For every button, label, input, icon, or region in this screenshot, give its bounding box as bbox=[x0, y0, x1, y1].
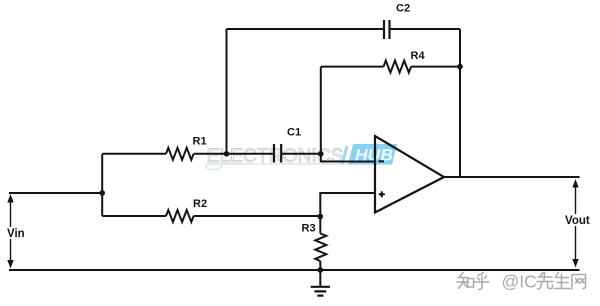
svg-text:R3: R3 bbox=[302, 223, 316, 235]
watermark swoosh underline bbox=[206, 164, 348, 170]
svg-text:Vout: Vout bbox=[565, 215, 590, 227]
node R2 R3 junction bbox=[318, 214, 324, 220]
ground bbox=[311, 287, 330, 296]
glyph xian bbox=[537, 273, 553, 290]
svg-text:R1: R1 bbox=[193, 136, 207, 148]
wire C2 to right vertical bbox=[390, 28, 461, 30]
wire plus branch vertical and plus lead bbox=[320, 193, 374, 234]
node rail junction bbox=[318, 267, 324, 273]
op-amp plus pin mark bbox=[379, 191, 385, 197]
wire ground stem bbox=[319, 270, 321, 287]
wire C2 branch vertical bbox=[226, 29, 228, 154]
capacitor C1 bbox=[274, 144, 281, 163]
wire R4 branch vertical and minus lead bbox=[321, 67, 375, 162]
wire left vertical split bbox=[101, 154, 103, 216]
watermark zhihu text bbox=[457, 273, 489, 290]
watermark HUB box bbox=[348, 144, 397, 165]
wire R1 line left bbox=[102, 153, 166, 155]
svg-text:R2: R2 bbox=[193, 198, 207, 210]
wire input Vin horizontal bbox=[9, 192, 102, 194]
capacitor C2 bbox=[384, 20, 390, 39]
op-amp U1 bbox=[375, 136, 444, 213]
svg-text:C1: C1 bbox=[287, 127, 301, 139]
resistor R4 bbox=[384, 61, 412, 73]
svg-text:@IC: @IC bbox=[502, 272, 537, 292]
wire R4 left bbox=[321, 66, 384, 68]
svg-text:R4: R4 bbox=[411, 50, 426, 62]
wire R2 right bbox=[194, 215, 321, 217]
glyph sheng bbox=[554, 273, 570, 289]
resistor R3 bbox=[315, 234, 326, 262]
wire R3 to rail bbox=[319, 261, 321, 270]
Vout arrow bbox=[572, 179, 578, 268]
Vin arrow bbox=[7, 194, 13, 269]
wire top line to C2 bbox=[227, 28, 385, 30]
node input junction bbox=[99, 190, 105, 196]
watermark blue slash bbox=[341, 146, 349, 164]
svg-text:C2: C2 bbox=[396, 3, 410, 15]
glyph wang bbox=[572, 275, 586, 290]
svg-text:Vin: Vin bbox=[7, 228, 25, 240]
wire ground rail bbox=[9, 269, 580, 271]
glyph hu bbox=[474, 273, 489, 290]
node R4 feedback junction bbox=[457, 64, 463, 70]
resistor R1 bbox=[166, 148, 194, 160]
node C1 R4 junction bbox=[318, 151, 324, 157]
op-amp minus pin mark bbox=[379, 160, 385, 162]
wire feedback right vertical bbox=[459, 29, 461, 177]
node C2 branch tap bbox=[224, 151, 230, 157]
wire R1 to C1 bbox=[194, 153, 274, 155]
resistor R2 bbox=[166, 210, 194, 222]
wire R4 right bbox=[411, 66, 460, 68]
wire R2 line left bbox=[102, 215, 166, 217]
glyph zhi bbox=[457, 273, 469, 289]
wire output bbox=[444, 176, 580, 178]
wire C1 to junction bbox=[281, 153, 321, 155]
